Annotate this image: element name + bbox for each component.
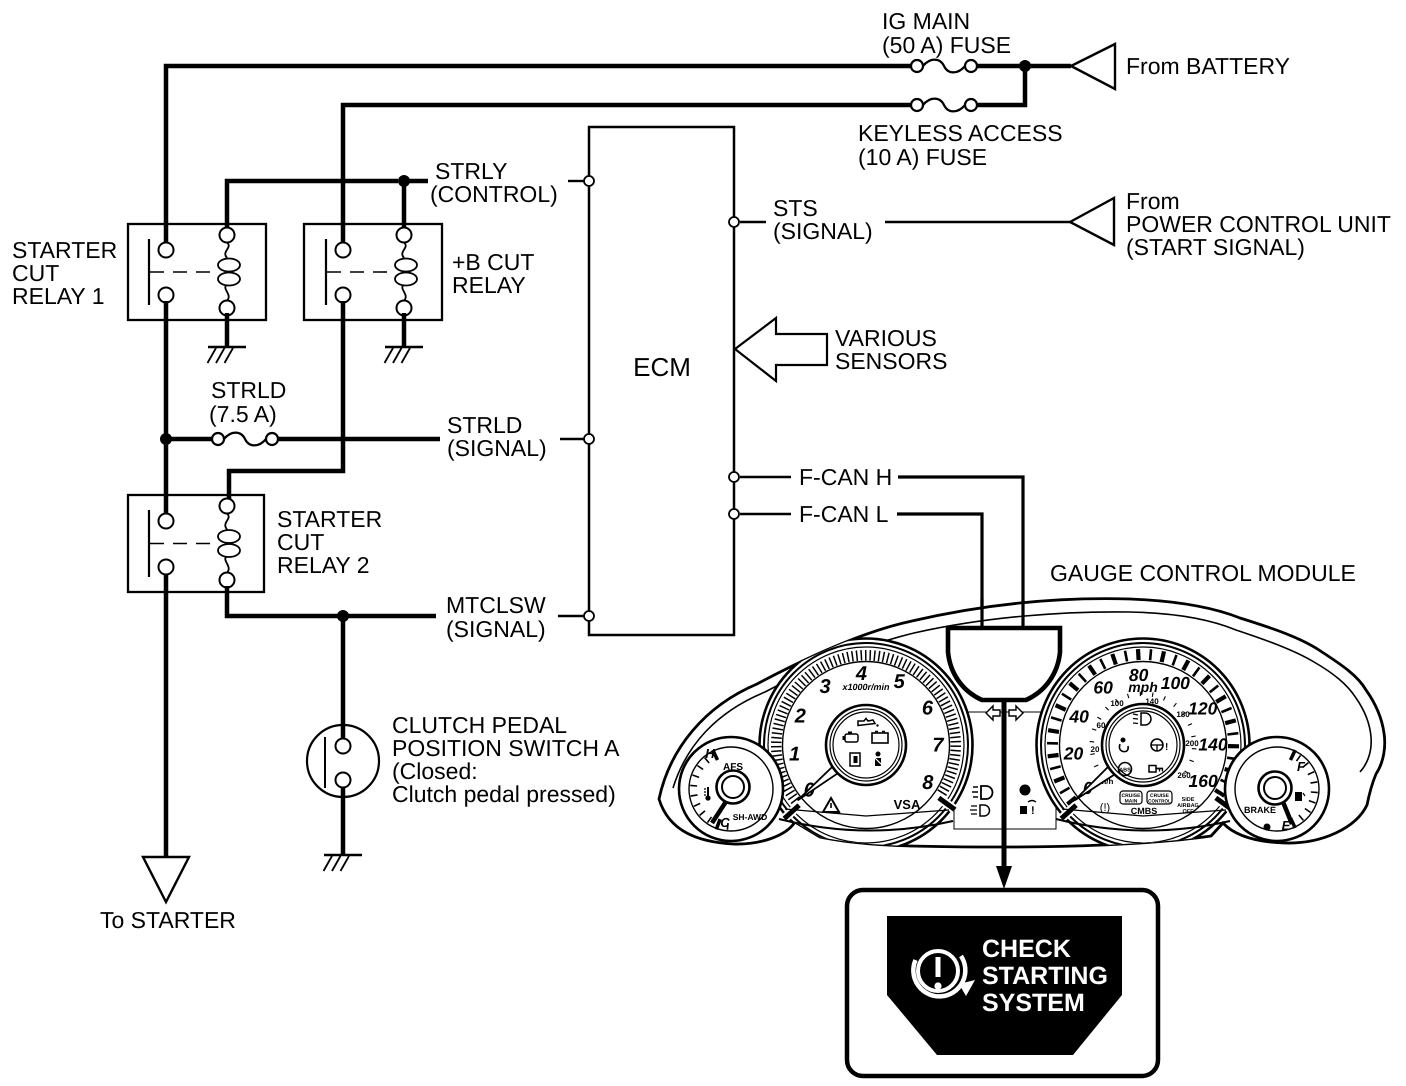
wire: relay2 switch down to starter (164, 575, 169, 857)
svg-text:(10 A) FUSE: (10 A) FUSE (858, 144, 987, 170)
speedometer CRUISE CONTROL box (1147, 791, 1172, 804)
connector arrow To STARTER (143, 857, 189, 902)
gauge control module: cluster housing outline (659, 599, 1385, 847)
svg-text:40: 40 (1068, 706, 1089, 726)
turn signal arrow left (986, 706, 1000, 720)
left pod knob (717, 771, 750, 804)
switch: CLUTCH PEDAL POSITION SWITCH A (307, 725, 379, 797)
right pod (fuel gauge / BRAKE) (1225, 737, 1329, 841)
right pod needle (1281, 797, 1292, 824)
svg-text:260: 260 (1177, 771, 1191, 780)
wire: dash to ECM STRLY pin (568, 180, 584, 182)
wire: MTCLSW junction down to clutch switch (341, 616, 346, 739)
wire: STRLD to fuse (166, 437, 212, 442)
svg-text:RELAY: RELAY (452, 272, 526, 298)
wire: relay1 switch down through STRLD tap to relay2 (164, 301, 169, 514)
tachometer tick ring (791, 797, 799, 804)
relay: STARTER CUT RELAY 1 (128, 224, 266, 320)
icon: indicator dot (1020, 785, 1031, 796)
wire: F-CAN H to gauge module (898, 477, 1023, 630)
wire: +B relay coil to ground (402, 313, 407, 347)
svg-text:180: 180 (1176, 710, 1190, 719)
wire: relay2 coil to MTCLSW net (227, 586, 436, 616)
pin F-CAN H (729, 472, 739, 482)
svg-text:100: 100 (1161, 673, 1190, 693)
svg-text:5: 5 (894, 671, 906, 693)
pin STRLD (584, 434, 594, 444)
svg-text:7: 7 (932, 735, 944, 757)
hub icon: immobilizer key (1149, 766, 1156, 773)
svg-text:20: 20 (1091, 745, 1100, 754)
icon: headlight on (981, 786, 993, 799)
speedometer CRUISE MAIN box (1120, 791, 1142, 804)
svg-text:RELAY 1: RELAY 1 (12, 283, 104, 309)
svg-text:CMBS: CMBS (1131, 806, 1158, 816)
wire: F-CAN L dash (740, 513, 791, 516)
hub icon: headlight (1141, 713, 1151, 725)
tachometer face circle (783, 662, 950, 829)
pin STRLY (584, 176, 594, 186)
svg-text:KEYLESS ACCESS: KEYLESS ACCESS (858, 120, 1063, 146)
hub icon: airbag (1121, 738, 1126, 743)
svg-text:F-CAN L: F-CAN L (799, 501, 889, 527)
svg-text:STARTING: STARTING (982, 962, 1108, 990)
svg-text:x1000r/min: x1000r/min (841, 682, 890, 692)
wire: relay1 coil to ground (225, 313, 230, 347)
wire: STS dash from ECM (740, 221, 766, 223)
svg-text:CHECK: CHECK (982, 935, 1071, 963)
svg-text:160: 160 (1189, 771, 1218, 791)
speedometer face circle (1060, 662, 1227, 829)
hub icon: ABS (1119, 763, 1132, 776)
node: MTCLSW junction (337, 610, 349, 622)
svg-text:STRLD: STRLD (211, 377, 286, 403)
svg-text:140: 140 (1198, 735, 1227, 755)
svg-text:CONTROL: CONTROL (1148, 799, 1171, 804)
left pod (AFS / temperature gauge) (679, 737, 783, 841)
svg-text:GAUGE CONTROL MODULE: GAUGE CONTROL MODULE (1050, 560, 1356, 586)
svg-text:C: C (720, 815, 730, 830)
tachometer hub (826, 705, 906, 785)
svg-text:F-CAN H: F-CAN H (799, 464, 892, 490)
svg-text:100: 100 (1110, 699, 1124, 708)
wire: battery feed top rail (166, 66, 911, 245)
right pod fuel icon (1295, 792, 1302, 801)
wire: F-CAN L to gauge module (897, 514, 982, 630)
wire stubs into display (980, 598, 983, 632)
svg-text:(START SIGNAL): (START SIGNAL) (1126, 234, 1305, 260)
relay: STARTER CUT RELAY 2 (128, 495, 264, 592)
gauge module display window (948, 628, 1060, 700)
speedometer face bottom chord (1062, 809, 1226, 816)
svg-text:From BATTERY: From BATTERY (1126, 53, 1290, 79)
svg-text:(SIGNAL): (SIGNAL) (447, 435, 547, 461)
svg-text:H: H (705, 746, 715, 761)
center valley panel (954, 712, 1056, 829)
speedometer inner km/h tick ring (1101, 775, 1105, 778)
left pod thermometer icon (707, 787, 709, 797)
ground under +B cut relay coil (385, 346, 423, 349)
svg-text:2: 2 (794, 705, 806, 727)
wire: STS to power control unit (885, 221, 1070, 224)
svg-text:3: 3 (819, 676, 830, 698)
svg-text:8: 8 (922, 772, 934, 794)
connector arrow From BATTERY (1071, 44, 1115, 89)
fuse IG MAIN (50 A) (911, 60, 923, 72)
wire: dash to ECM MTCLSW pin (558, 615, 584, 617)
icon: fog light (980, 805, 990, 816)
turn signal arrow right (1009, 706, 1023, 720)
tachometer needle (798, 765, 841, 801)
CHECK STARTING SYSTEM message box (847, 890, 1158, 1076)
hub icon: oil pressure (858, 719, 875, 726)
speedometer needle (1075, 767, 1115, 801)
svg-text:To STARTER: To STARTER (100, 907, 236, 933)
wire: F-CAN H dash (740, 476, 791, 479)
svg-text:!: ! (1031, 805, 1035, 817)
svg-text:6: 6 (922, 697, 934, 719)
tachometer bezel (760, 639, 973, 852)
hub icon: check engine (845, 734, 858, 742)
svg-text:IG MAIN: IG MAIN (882, 8, 970, 34)
svg-text:(7.5 A): (7.5 A) (209, 401, 277, 427)
cluster inner contour line (673, 612, 1371, 788)
svg-text:(50 A) FUSE: (50 A) FUSE (882, 32, 1011, 58)
check system icon (918, 951, 958, 991)
hub icon: door open (850, 753, 860, 766)
wire: display to check message arrow (1002, 700, 1007, 868)
fuse STRLD (7.5 A) (212, 433, 224, 445)
arrow VARIOUS SENSORS into ECM (735, 318, 827, 381)
icon: keyless warning (1020, 806, 1027, 814)
svg-text:RELAY 2: RELAY 2 (277, 552, 369, 578)
svg-text:20: 20 (1063, 743, 1084, 763)
svg-text:60: 60 (1093, 677, 1113, 697)
svg-text:1: 1 (789, 744, 800, 766)
ECM box U1 (589, 127, 734, 635)
svg-text:MTCLSW: MTCLSW (446, 592, 546, 618)
message screen (black) (887, 916, 1122, 1055)
svg-text:Clutch pedal pressed): Clutch pedal pressed) (392, 781, 616, 807)
wire: fuse to battery junction (977, 64, 1071, 69)
svg-text:(SIGNAL): (SIGNAL) (773, 218, 873, 244)
svg-text:200: 200 (1185, 739, 1199, 748)
hub icon: steering warning (1151, 739, 1163, 751)
node: STRLY junction (398, 175, 410, 187)
pin MTCLSW (584, 611, 594, 621)
pin F-CAN L (729, 509, 739, 519)
ground under clutch switch (324, 854, 362, 857)
relay: +B CUT RELAY (304, 224, 442, 320)
svg-text:(CONTROL): (CONTROL) (430, 181, 558, 207)
svg-text:MAIN: MAIN (1125, 799, 1138, 805)
right pod knob (1259, 772, 1292, 805)
ground under relay 1 coil (208, 346, 246, 349)
wire: STRLD fuse to ECM (278, 437, 440, 442)
svg-text:ABS: ABS (1119, 768, 1131, 774)
pin STS (729, 217, 739, 227)
wire: STRLY net from relay coils to ECM (227, 181, 398, 229)
right pod low-fuel dot (1264, 824, 1271, 831)
speedometer scale end bars (1061, 805, 1076, 818)
tachometer scale end bars (784, 805, 799, 818)
left pod tick marks (714, 752, 717, 758)
svg-text:ECM: ECM (633, 352, 691, 382)
wire: keyless access rail (343, 105, 911, 245)
tachometer face bottom chord (785, 809, 949, 816)
wire: +B relay switch down-left to relay2 coil (229, 301, 343, 503)
fuse KEYLESS ACCESS (10 A) (911, 99, 923, 111)
node: STRLD junction (160, 433, 172, 445)
svg-text:SH-AWD: SH-AWD (733, 812, 767, 822)
left pod needle (712, 797, 729, 823)
wire: clutch switch to ground (341, 788, 346, 855)
hub icon: seat belt (876, 752, 881, 757)
svg-text:!: ! (1165, 742, 1168, 753)
svg-text:BRAKE: BRAKE (1244, 805, 1276, 815)
node: battery junction (1019, 60, 1031, 72)
connector arrow From POWER CONTROL UNIT (1070, 198, 1114, 245)
wire: keyless fuse up to battery junction (977, 66, 1025, 105)
tachometer warning triangle (823, 798, 839, 812)
svg-text:F: F (1297, 759, 1306, 774)
svg-text:VSA: VSA (894, 797, 921, 812)
svg-text:120: 120 (1188, 699, 1217, 719)
right pod tick marks (1291, 820, 1294, 826)
svg-text:SYSTEM: SYSTEM (982, 989, 1085, 1017)
hub icon: battery charge (872, 733, 888, 743)
wire: dash to ECM STRLD pin (560, 438, 584, 440)
speedometer tick ring (1067, 797, 1076, 804)
speedometer hub (1102, 704, 1184, 786)
speedometer bezel (1037, 639, 1250, 852)
svg-text:SENSORS: SENSORS (835, 348, 947, 374)
svg-text:(SIGNAL): (SIGNAL) (446, 616, 546, 642)
